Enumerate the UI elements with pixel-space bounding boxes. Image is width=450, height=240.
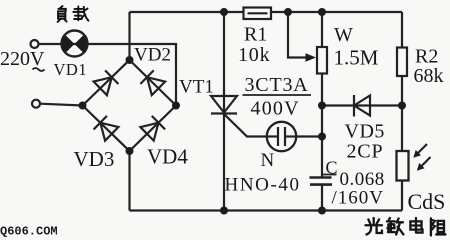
- svg-text:VD1: VD1: [54, 60, 88, 79]
- wire VT1 anode-cathode line: [223, 12, 225, 211]
- terminal 220V top: [31, 40, 39, 48]
- svg-text:VD3: VD3: [74, 147, 115, 171]
- wire VD5 horizontal: [322, 104, 402, 106]
- wire R2 CdS branch: [401, 12, 403, 211]
- wire neon lamp to capacitor line: [296, 135, 322, 137]
- svg-text:VD2: VD2: [134, 45, 171, 66]
- svg-text:400V: 400V: [251, 98, 300, 120]
- diode VD1 upper-left arm: [83, 60, 130, 106]
- wire wiper from rail: [288, 12, 307, 58]
- wire potentiometer branch: [321, 12, 323, 106]
- node VD5 R2: [398, 102, 406, 110]
- lamp (load): [62, 31, 88, 57]
- svg-text:3CT3A: 3CT3A: [245, 74, 309, 96]
- svg-text:1.5M: 1.5M: [334, 46, 379, 70]
- wire 220V bottom terminal to bridge left vertex: [40, 104, 83, 106]
- node wiper top rail: [284, 8, 292, 16]
- node capacitor bottom rail: [318, 207, 326, 215]
- photoresistor CdS body: [397, 151, 409, 181]
- resistor R1: [244, 8, 272, 20]
- svg-text:68k: 68k: [414, 65, 444, 87]
- node W top rail: [318, 8, 326, 16]
- wire VT1 gate to neon lamp: [224, 114, 268, 137]
- wire bridge top vertex riser: [128, 12, 130, 60]
- svg-text:Q606.COM: Q606.COM: [0, 225, 58, 239]
- potentiometer W wiper arrow: [306, 53, 317, 62]
- diode VD5: [354, 95, 370, 117]
- node VT1 top rail: [220, 8, 228, 16]
- neon lamp N: [267, 122, 296, 151]
- svg-text:VD4: VD4: [147, 145, 188, 169]
- capacitor C label underline: [323, 174, 337, 176]
- svg-text:W: W: [334, 24, 353, 46]
- svg-text:VD5: VD5: [345, 121, 385, 143]
- node bridge bottom: [126, 147, 134, 155]
- junction node dots: [79, 8, 407, 215]
- node VT1 bottom rail: [220, 207, 228, 215]
- wire bridge bottom drop: [128, 151, 130, 211]
- potentiometer W body: [317, 47, 327, 74]
- svg-text:R1: R1: [244, 24, 267, 46]
- svg-text:C: C: [326, 158, 338, 178]
- photoresistor light arrow 2: [417, 157, 431, 171]
- label 光敏电阻 (photoresistor): [365, 218, 445, 235]
- wire top rail: [130, 11, 403, 13]
- label ~ AC: [33, 68, 45, 71]
- node neon capacitor: [318, 133, 326, 141]
- node bridge left: [79, 102, 87, 110]
- svg-text:2CP: 2CP: [347, 141, 384, 163]
- terminal 220V bottom: [32, 100, 40, 108]
- wire 220V top terminal to lamp to bridge right vertex: [39, 44, 176, 106]
- diode VD4 lower-right arm: [130, 106, 177, 152]
- resistor R2: [397, 48, 407, 77]
- svg-text:HNO-40: HNO-40: [225, 175, 301, 196]
- wire capacitor upper lead: [321, 106, 323, 178]
- svg-text:N: N: [261, 150, 275, 171]
- wire capacitor lower lead: [321, 185, 323, 211]
- svg-text:10k: 10k: [238, 44, 270, 66]
- svg-text:VT1: VT1: [179, 77, 214, 98]
- svg-text:220V: 220V: [0, 48, 45, 70]
- diode VD2 upper-right arm: [130, 60, 177, 106]
- svg-text:CdS: CdS: [408, 189, 446, 214]
- label 负载 (load): [58, 6, 67, 22]
- photoresistor light arrow 1: [413, 144, 427, 158]
- fraction bar 3CT3A/400V: [243, 94, 312, 96]
- svg-text:/160V: /160V: [332, 188, 385, 209]
- diode VD3 lower-left arm: [83, 106, 130, 152]
- thyristor VT1: [211, 96, 237, 114]
- node W bottom: [318, 102, 326, 110]
- capacitor C plates: [310, 178, 333, 185]
- node bridge right: [172, 102, 180, 110]
- wire bottom rail: [130, 209, 403, 211]
- node bridge top: [126, 56, 134, 64]
